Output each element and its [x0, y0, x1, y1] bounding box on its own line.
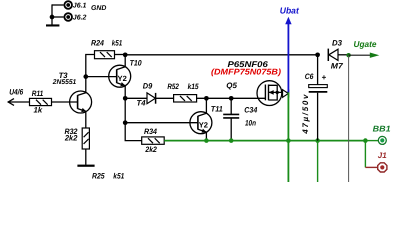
diode D9	[147, 93, 156, 104]
svg-text:R24: R24	[91, 38, 105, 47]
wire green bus	[164, 140, 365, 142]
body diode Q5	[283, 89, 289, 97]
wire to J1 red	[365, 166, 377, 168]
svg-text:k51: k51	[113, 172, 124, 181]
svg-text:J6.1: J6.1	[73, 2, 87, 9]
node BB1 branch	[363, 138, 368, 143]
svg-text:Y2: Y2	[199, 121, 208, 130]
transistor T3	[70, 91, 92, 113]
svg-text:2N5551: 2N5551	[52, 79, 77, 86]
mosfet Q5	[257, 81, 288, 106]
wire down from Ugate node	[348, 55, 350, 182]
transistor T10	[109, 65, 131, 87]
wire T10 collector	[124, 55, 126, 67]
wire C6 green down	[317, 141, 319, 182]
svg-text:T11: T11	[211, 105, 223, 114]
svg-text:Ugate: Ugate	[354, 39, 377, 49]
svg-text:R34: R34	[144, 127, 158, 136]
svg-text:k15: k15	[188, 82, 200, 91]
svg-text:Q5: Q5	[226, 81, 237, 90]
wire J6.2 stub	[52, 16, 64, 18]
svg-text:C34: C34	[244, 106, 258, 115]
connector BB1	[378, 136, 386, 144]
wire D3 to Ugate node	[338, 54, 349, 56]
node C34 bus	[229, 138, 234, 143]
wire gate row	[197, 97, 266, 99]
svg-text:47µ/50v: 47µ/50v	[301, 93, 310, 135]
node T3 collector / T10 base	[83, 74, 88, 79]
svg-text:J6.2: J6.2	[73, 14, 87, 21]
wire to T10 base	[86, 76, 117, 78]
resistor R34	[142, 137, 165, 144]
resistor R11	[30, 98, 52, 105]
node top rail / C6 / D3	[315, 52, 320, 57]
resistor R52	[174, 95, 197, 102]
capacitor C6	[309, 55, 328, 141]
svg-text:D3: D3	[332, 39, 343, 48]
svg-text:GND: GND	[91, 5, 106, 12]
wire T11 collector	[205, 98, 207, 113]
node C34 top	[229, 96, 234, 101]
svg-text:J1: J1	[378, 151, 387, 160]
svg-text:T4: T4	[137, 98, 147, 107]
svg-text:k51: k51	[112, 38, 123, 47]
svg-text:M7: M7	[331, 62, 344, 71]
svg-text:T10: T10	[130, 58, 143, 67]
ground	[77, 165, 94, 167]
wire J6.1 stub	[52, 4, 64, 6]
svg-text:10n: 10n	[245, 119, 256, 128]
port U4/6 arrow	[8, 99, 30, 106]
svg-text:2k2: 2k2	[64, 133, 78, 142]
connector J1	[378, 163, 387, 172]
transistor T11	[190, 112, 212, 134]
wire T3 collector up to R24	[86, 55, 95, 93]
node junction J6	[50, 15, 55, 20]
svg-text:2k2: 2k2	[145, 145, 158, 154]
node C6 bus	[315, 138, 320, 143]
wire T11 emitter	[205, 132, 207, 141]
svg-text:D9: D9	[143, 82, 153, 91]
wire R11 to T3 base	[52, 101, 78, 103]
ground	[46, 24, 59, 26]
wire T11 base	[125, 122, 198, 124]
svg-text:R11: R11	[32, 89, 44, 98]
wire D9 to R52	[156, 97, 174, 99]
wire top rail	[125, 54, 317, 56]
svg-text:Ubat: Ubat	[280, 6, 300, 16]
node T11 base tap	[123, 120, 128, 125]
diode D3	[328, 49, 338, 61]
resistor R32	[82, 128, 89, 149]
node T11 emitter bus	[204, 138, 209, 143]
wire R24 right	[115, 54, 126, 56]
svg-text:Y2: Y2	[118, 74, 127, 83]
svg-text:+: +	[322, 73, 327, 82]
node Ugate	[346, 53, 350, 57]
svg-text:R52: R52	[167, 82, 179, 91]
wire to BB1	[365, 140, 378, 142]
wire source green vertical	[287, 92, 289, 182]
wire T3 emitter to R32	[85, 111, 87, 128]
wire left vertical	[125, 98, 142, 140]
resistor R24	[95, 51, 115, 59]
wire GND vertical	[51, 4, 53, 24]
wire R32 to ground	[85, 149, 87, 165]
node rail left	[123, 52, 128, 57]
svg-text:BB1: BB1	[373, 123, 391, 133]
connector J6.2	[64, 13, 72, 21]
wire T10 emitter down	[124, 85, 126, 98]
svg-text:R25: R25	[92, 172, 105, 181]
node T11 collector	[204, 96, 209, 101]
port Ugate arrow	[349, 53, 380, 58]
wire BB1 branch down	[364, 141, 366, 168]
node source bus	[286, 138, 291, 143]
svg-text:U4/6: U4/6	[9, 88, 24, 97]
connector J6.1	[64, 1, 72, 9]
port Ubat arrow	[285, 17, 291, 93]
node D9 row	[123, 96, 128, 101]
svg-text:(DMFP75N075B): (DMFP75N075B)	[211, 66, 281, 76]
svg-text:C6: C6	[305, 72, 314, 81]
capacitor C34	[223, 98, 239, 140]
wire D9 anode	[125, 97, 147, 99]
svg-text:1k: 1k	[34, 105, 43, 114]
